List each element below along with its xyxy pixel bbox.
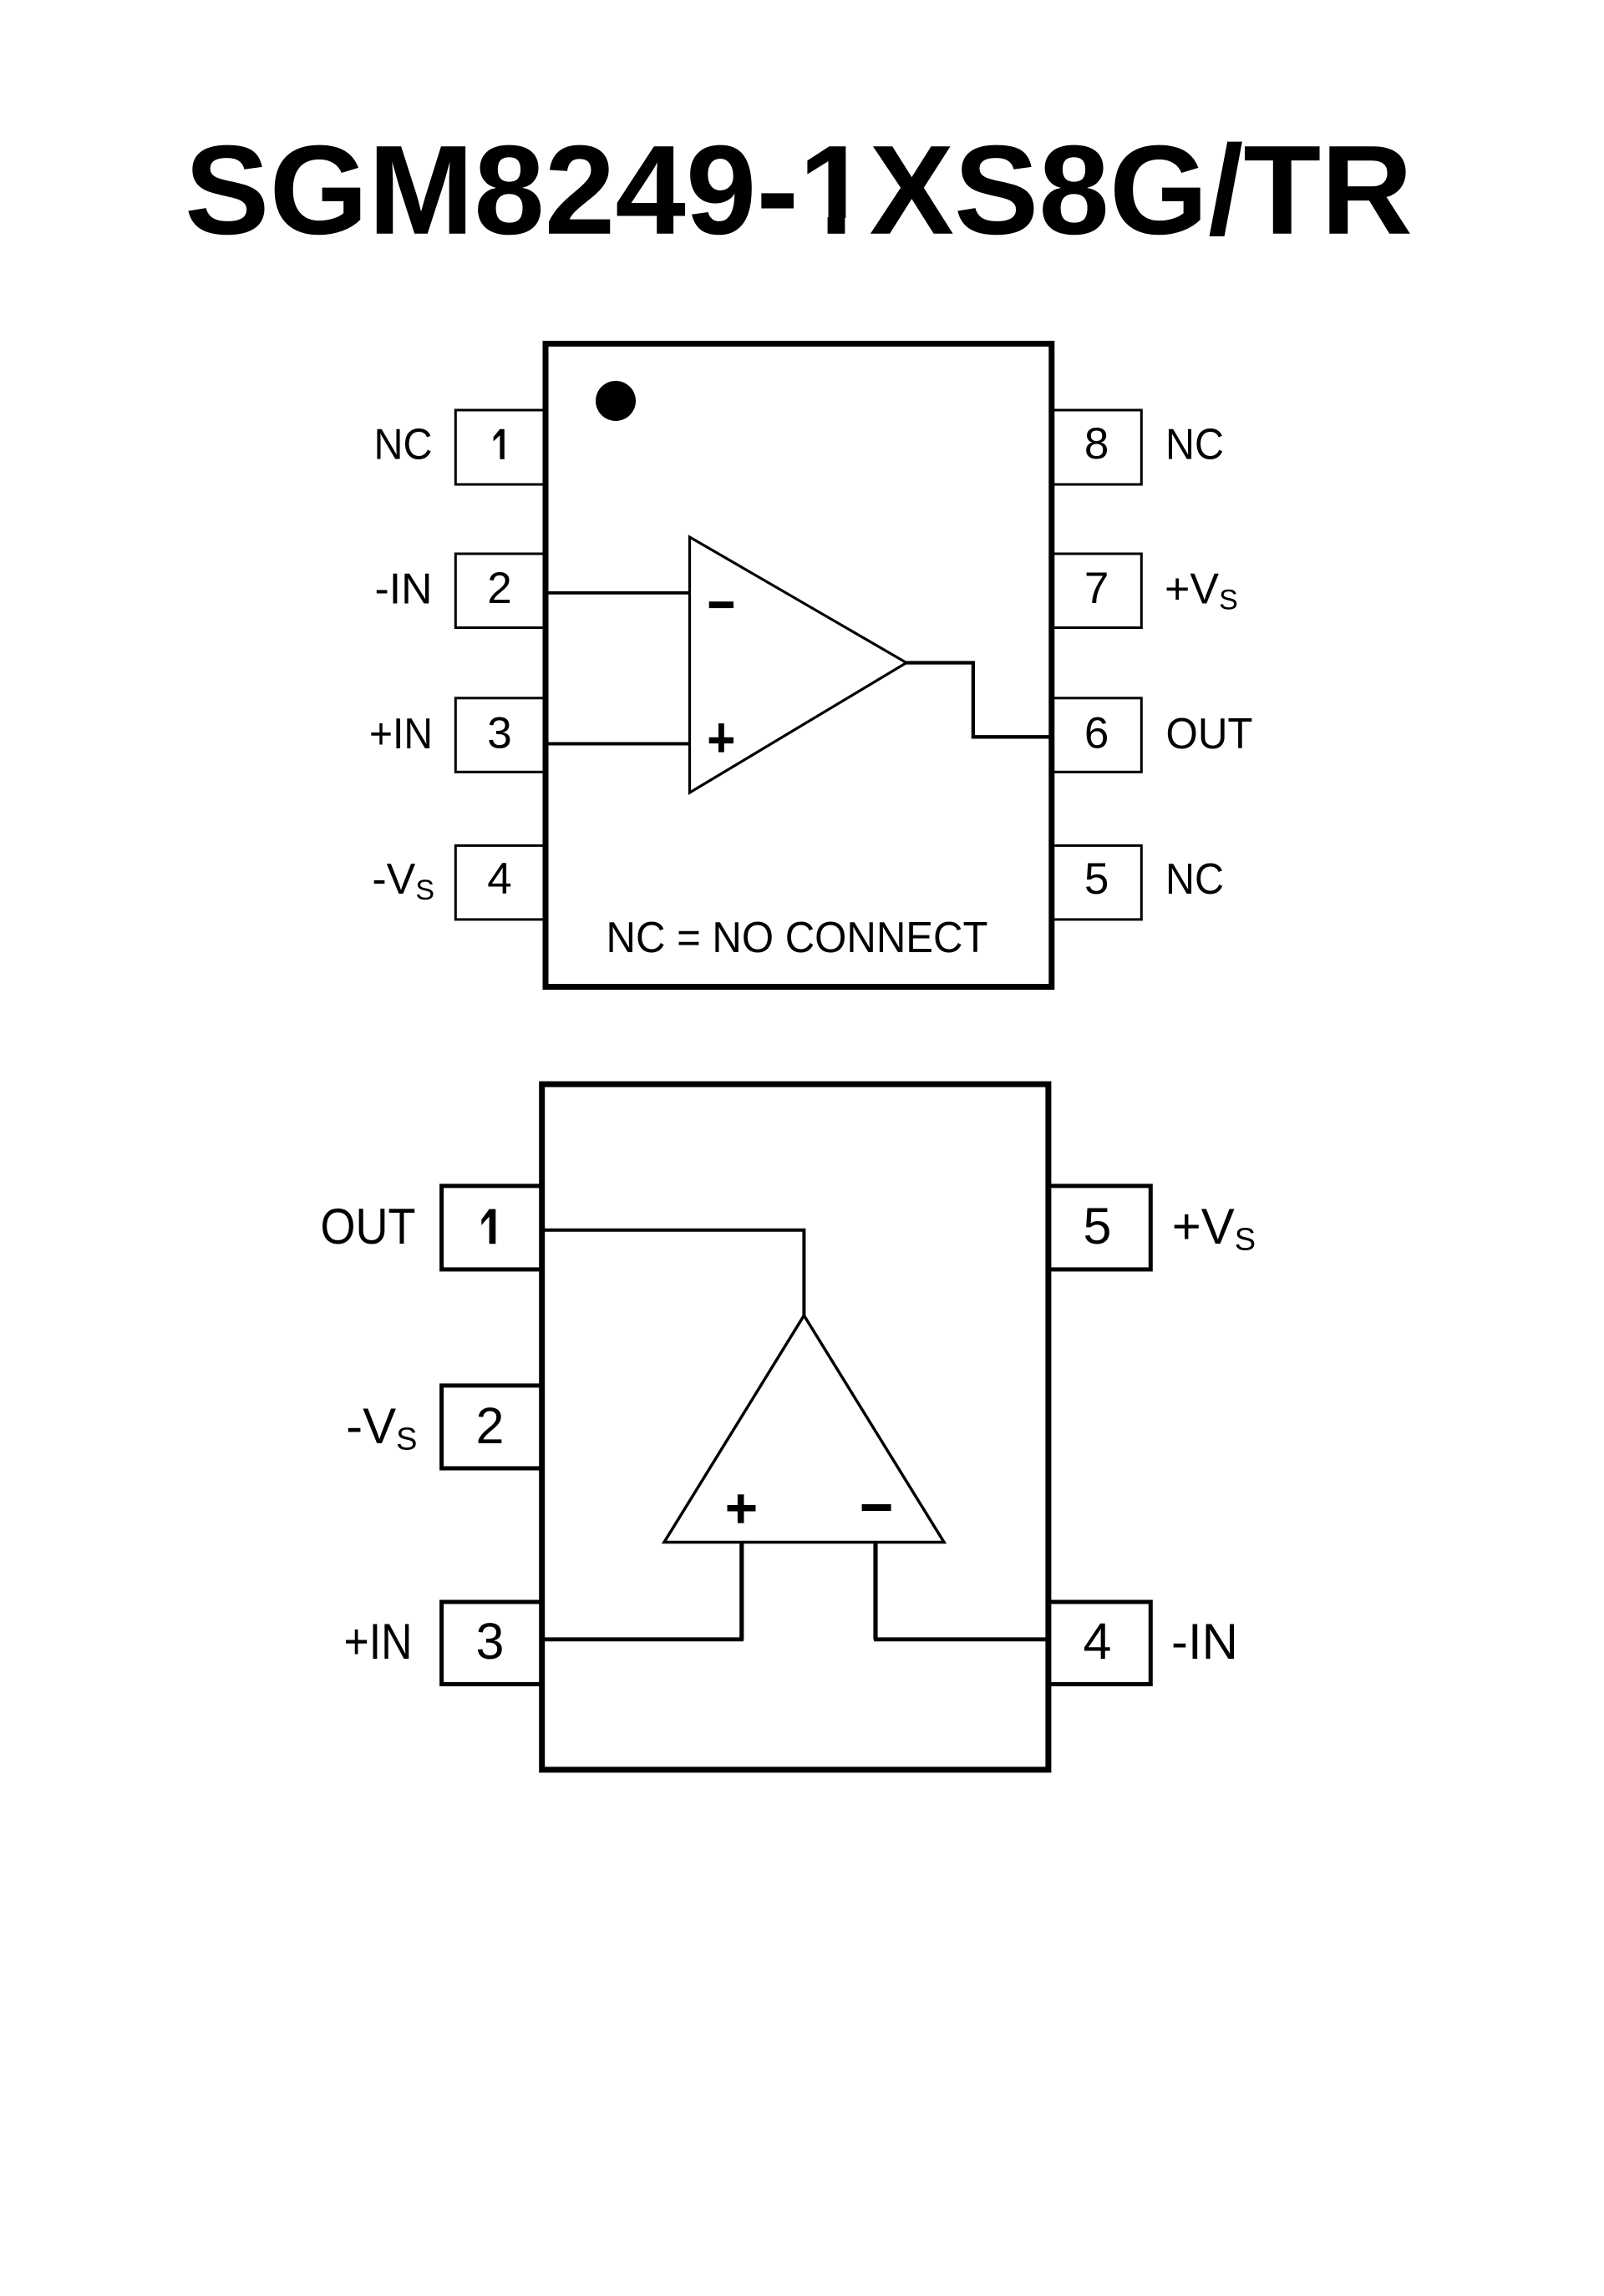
svg-text:-IN: -IN bbox=[375, 565, 433, 614]
wire op-amp A2 inverting input to pin 4 (-IN) bbox=[874, 1637, 1048, 1641]
wire pin 1 (OUT) to op-amp A2 apex bbox=[542, 1230, 805, 1316]
IC body U2 (SOT-23-5 package outline) bbox=[542, 1084, 1048, 1770]
wire pin 3 (+IN) to op-amp A1 bbox=[544, 743, 691, 746]
op-amp A2 non-inverting input marker (plus) bbox=[728, 1494, 756, 1523]
svg-text:5: 5 bbox=[1084, 854, 1109, 904]
pin 1 marker dot bbox=[596, 381, 636, 421]
op-amp A2 triangle (pointing up) bbox=[664, 1315, 944, 1543]
pin 5 box (SOT-23-5) bbox=[1048, 1186, 1150, 1270]
pin 4 box (SOT-23-5) bbox=[1048, 1602, 1150, 1685]
pin 3 box bbox=[455, 698, 546, 773]
pin 1 box bbox=[455, 410, 546, 484]
svg-text:SGM8249-1XS8G/TR: SGM8249-1XS8G/TR bbox=[185, 119, 1413, 261]
svg-text:7: 7 bbox=[1084, 564, 1109, 613]
svg-text:-IN: -IN bbox=[1171, 1614, 1238, 1670]
svg-text:6: 6 bbox=[1084, 709, 1109, 758]
svg-text:2: 2 bbox=[476, 1397, 505, 1454]
svg-text:OUT: OUT bbox=[321, 1199, 416, 1254]
wire pin 2 (-IN) to op-amp A1 bbox=[544, 591, 691, 595]
svg-text:NC: NC bbox=[374, 421, 433, 469]
wire op-amp A1 output to pin 6 bbox=[905, 663, 1051, 737]
IC body U1 (SOIC-8 package outline) bbox=[546, 344, 1052, 987]
pin 3 box (SOT-23-5) bbox=[442, 1602, 542, 1685]
svg-text:NC = NO CONNECT: NC = NO CONNECT bbox=[607, 914, 988, 962]
pin 5 box bbox=[1052, 845, 1142, 920]
svg-text:8: 8 bbox=[1084, 419, 1109, 469]
wire stub op-amp A2 non-inverting input bbox=[739, 1543, 744, 1640]
svg-text:NC: NC bbox=[1165, 855, 1224, 904]
op-amp A1 non-inverting input marker (plus) bbox=[709, 723, 733, 753]
pin 1 number bbox=[494, 429, 505, 459]
pin 6 box bbox=[1052, 698, 1142, 773]
title digit 1 foot-serif removal patch bbox=[805, 218, 868, 236]
svg-text:+IN: +IN bbox=[344, 1614, 413, 1670]
svg-text:3: 3 bbox=[476, 1613, 505, 1670]
op-amp A1 inverting input marker (minus) bbox=[709, 601, 733, 608]
pin 1 box (SOT-23-5) bbox=[442, 1186, 542, 1270]
pin 4 box bbox=[455, 845, 546, 920]
svg-text:+IN: +IN bbox=[369, 710, 433, 758]
wire stub op-amp A2 inverting input bbox=[873, 1543, 877, 1640]
svg-text:OUT: OUT bbox=[1166, 710, 1253, 758]
op-amp A2 inverting input marker (minus) bbox=[862, 1504, 891, 1511]
pin 1 number (SOT-23-5) bbox=[481, 1209, 495, 1244]
svg-text:NC: NC bbox=[1165, 421, 1224, 469]
pin 8 box bbox=[1052, 410, 1142, 484]
svg-text:4: 4 bbox=[487, 854, 511, 904]
op-amp A1 triangle bbox=[690, 537, 907, 793]
svg-text:5: 5 bbox=[1084, 1198, 1112, 1254]
pin 2 box bbox=[455, 554, 546, 628]
svg-text:3: 3 bbox=[487, 709, 511, 758]
pin 2 box (SOT-23-5) bbox=[442, 1386, 542, 1468]
svg-text:2: 2 bbox=[487, 564, 511, 613]
pin 7 box bbox=[1052, 554, 1142, 628]
svg-text:4: 4 bbox=[1084, 1613, 1112, 1670]
wire pin 3 (+IN) to op-amp A2 bbox=[542, 1637, 744, 1641]
